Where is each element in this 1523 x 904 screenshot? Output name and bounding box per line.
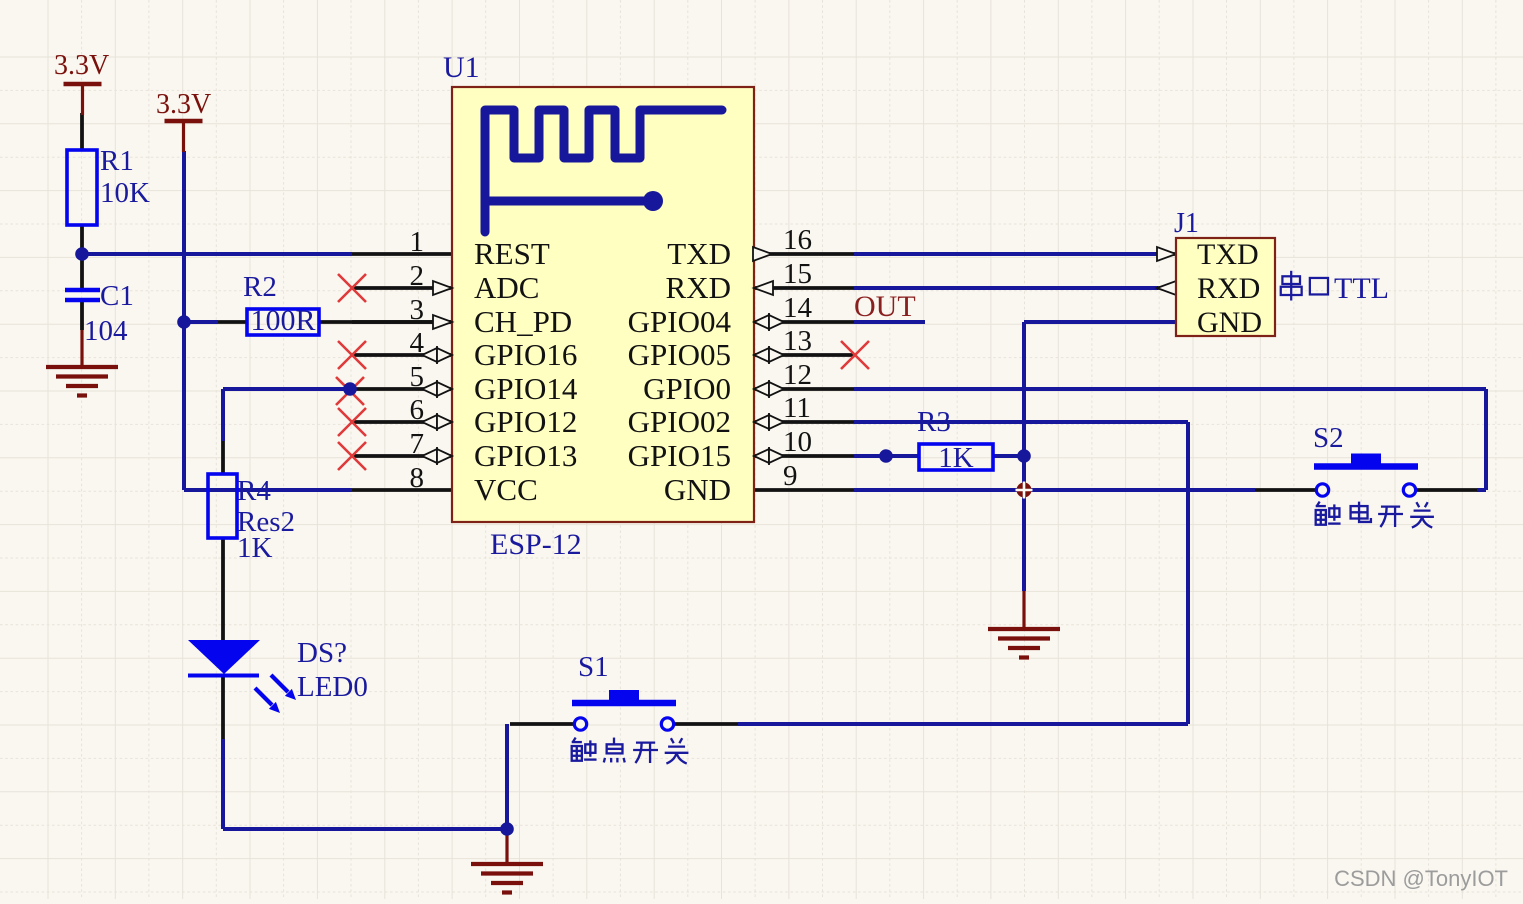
svg-text:R1: R1: [100, 145, 134, 177]
svg-text:C1: C1: [100, 280, 134, 312]
svg-text:GPIO12: GPIO12: [474, 404, 577, 439]
svg-text:16: 16: [783, 224, 812, 256]
svg-text:2: 2: [410, 260, 425, 292]
svg-text:10: 10: [783, 426, 812, 458]
svg-text:ESP-12: ESP-12: [490, 528, 582, 561]
svg-text:GPIO0: GPIO0: [643, 371, 731, 406]
svg-text:11: 11: [783, 392, 811, 424]
svg-text:RXD: RXD: [1197, 272, 1260, 305]
svg-text:CSDN @TonyIOT: CSDN @TonyIOT: [1334, 866, 1508, 891]
svg-text:3.3V: 3.3V: [156, 89, 211, 120]
svg-text:GPIO13: GPIO13: [474, 438, 577, 473]
svg-text:100R: 100R: [250, 304, 315, 337]
svg-text:TTL: TTL: [1334, 272, 1389, 305]
svg-text:GPIO15: GPIO15: [628, 438, 731, 473]
svg-text:104: 104: [84, 315, 128, 347]
svg-text:S2: S2: [1313, 422, 1344, 454]
svg-text:10K: 10K: [100, 177, 150, 209]
svg-text:GPIO14: GPIO14: [474, 371, 578, 406]
svg-text:TXD: TXD: [667, 236, 731, 271]
svg-text:1K: 1K: [938, 442, 974, 474]
svg-text:15: 15: [783, 258, 812, 290]
svg-text:REST: REST: [474, 236, 550, 271]
svg-text:R4: R4: [237, 475, 271, 507]
svg-text:14: 14: [783, 292, 813, 324]
svg-text:GND: GND: [664, 472, 731, 507]
svg-text:VCC: VCC: [474, 472, 538, 507]
svg-text:OUT: OUT: [854, 290, 916, 323]
svg-text:1: 1: [410, 226, 425, 258]
svg-text:GPIO04: GPIO04: [628, 304, 732, 339]
svg-text:GPIO16: GPIO16: [474, 337, 577, 372]
svg-text:GPIO02: GPIO02: [628, 404, 731, 439]
svg-text:13: 13: [783, 325, 812, 357]
svg-text:8: 8: [410, 462, 425, 494]
svg-text:DS?: DS?: [297, 637, 347, 669]
svg-text:12: 12: [783, 359, 812, 391]
svg-text:3.3V: 3.3V: [54, 50, 109, 81]
svg-text:CH_PD: CH_PD: [474, 304, 572, 339]
svg-text:U1: U1: [443, 51, 480, 84]
svg-text:ADC: ADC: [474, 270, 539, 305]
svg-text:3: 3: [410, 294, 425, 326]
svg-text:J1: J1: [1174, 208, 1199, 239]
svg-text:GND: GND: [1197, 306, 1262, 339]
svg-text:R2: R2: [243, 271, 277, 303]
svg-text:GPIO05: GPIO05: [628, 337, 731, 372]
svg-text:9: 9: [783, 460, 798, 492]
svg-text:RXD: RXD: [666, 270, 731, 305]
svg-text:TXD: TXD: [1197, 238, 1259, 271]
svg-text:S1: S1: [578, 651, 609, 683]
svg-text:LED0: LED0: [297, 671, 368, 703]
svg-text:R3: R3: [917, 406, 951, 438]
svg-text:1K: 1K: [237, 532, 273, 564]
